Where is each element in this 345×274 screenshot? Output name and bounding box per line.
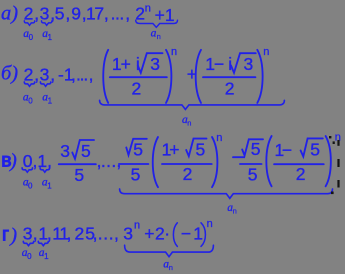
svg-text:+: + (155, 5, 165, 25)
svg-text:+: + (144, 224, 154, 244)
svg-text:...: ... (76, 65, 87, 85)
svg-text:): ) (9, 150, 17, 172)
svg-text:5: 5 (81, 141, 91, 161)
svg-text:3: 3 (244, 54, 254, 74)
svg-text:,: , (89, 65, 94, 85)
svg-text:−: − (282, 140, 292, 160)
svg-text:г: г (2, 224, 9, 246)
svg-text:5: 5 (310, 140, 320, 160)
svg-text:n: n (171, 46, 177, 58)
svg-text:9: 9 (71, 4, 81, 24)
svg-text:,: , (104, 4, 109, 24)
svg-text:1: 1 (165, 5, 175, 25)
svg-text:0,1,: 0,1, (23, 151, 52, 171)
svg-text:n: n (169, 263, 173, 272)
svg-text:2: 2 (24, 65, 34, 85)
svg-text:2: 2 (132, 79, 142, 99)
svg-text:,: , (67, 224, 72, 244)
svg-text:1: 1 (48, 33, 53, 42)
svg-text:,: , (33, 224, 38, 244)
svg-text:...: ... (101, 151, 117, 171)
svg-text:5: 5 (251, 139, 261, 159)
svg-text:1: 1 (44, 252, 49, 261)
svg-text:n: n (263, 46, 269, 58)
svg-text:n: n (187, 118, 191, 127)
svg-text:0: 0 (28, 182, 33, 191)
svg-text:3: 3 (123, 224, 133, 244)
svg-text:n: n (216, 132, 222, 144)
svg-text:): ) (9, 225, 17, 247)
svg-text:+: + (169, 140, 179, 160)
svg-text:−: − (181, 224, 191, 244)
svg-text:2: 2 (225, 79, 235, 99)
svg-text:n: n (157, 32, 161, 41)
svg-text:...: ... (111, 4, 124, 24)
svg-text:1: 1 (47, 182, 52, 191)
svg-text:7: 7 (94, 4, 104, 24)
svg-text:0: 0 (28, 97, 33, 106)
svg-text:2: 2 (135, 4, 145, 24)
svg-text:n: n (134, 220, 140, 232)
svg-text:5: 5 (74, 165, 84, 185)
svg-text:,: , (114, 224, 119, 244)
svg-text:3: 3 (60, 141, 70, 161)
svg-text:·: · (164, 224, 170, 244)
svg-text:+: + (121, 54, 131, 74)
svg-text:n: n (207, 218, 213, 230)
svg-text:,: , (125, 4, 130, 24)
svg-text:б): б) (1, 63, 18, 85)
svg-text:2: 2 (296, 164, 306, 184)
svg-text:n: n (233, 206, 237, 215)
svg-text:5: 5 (248, 164, 258, 184)
svg-text:а): а) (1, 3, 18, 25)
svg-text:n: n (145, 2, 151, 14)
svg-text:1: 1 (193, 224, 203, 244)
svg-text:0: 0 (29, 33, 34, 42)
svg-text:5: 5 (196, 140, 206, 160)
svg-text:,: , (116, 151, 121, 171)
svg-text:,: , (47, 224, 52, 244)
svg-text:5: 5 (55, 4, 65, 24)
svg-text:...: ... (98, 224, 115, 244)
svg-text:3: 3 (150, 54, 160, 74)
svg-text:,: , (65, 4, 70, 24)
svg-text:2: 2 (75, 224, 85, 244)
svg-text:1: 1 (48, 97, 53, 106)
svg-text:2: 2 (24, 4, 34, 24)
svg-text:−: − (214, 54, 224, 74)
svg-text:2: 2 (155, 224, 165, 244)
svg-text:2: 2 (183, 164, 193, 184)
svg-text:5: 5 (131, 164, 141, 184)
svg-text:5: 5 (133, 140, 143, 160)
svg-text:0: 0 (27, 252, 32, 261)
svg-text:i: i (228, 54, 232, 74)
svg-text:3: 3 (23, 224, 33, 244)
